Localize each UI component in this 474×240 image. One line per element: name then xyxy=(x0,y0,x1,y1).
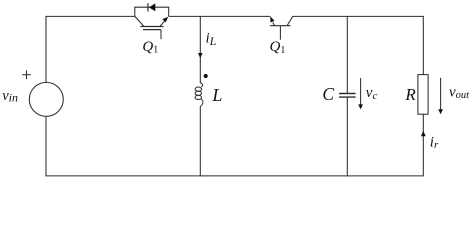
svg-text:L: L xyxy=(211,85,222,105)
diode D1 triangle xyxy=(149,3,155,11)
transistor Q1 right base lead xyxy=(279,26,281,40)
transistor Q1 left bar xyxy=(140,26,163,28)
wire inductor branch upper xyxy=(199,16,201,82)
wire top middle segment xyxy=(169,15,270,17)
wire capacitor branch lower xyxy=(346,97,348,176)
svg-text:R: R xyxy=(404,85,416,104)
wire right vertical lower xyxy=(422,114,424,176)
voltage source v_in circle xyxy=(29,82,63,116)
transistor Q1 left (IGBT) collector slant xyxy=(135,16,144,26)
diode D1 cathode bar xyxy=(147,3,149,11)
wire left vertical lower xyxy=(45,116,47,175)
current arrow iL xyxy=(198,53,203,58)
wire top right segment xyxy=(293,15,424,17)
capacitor C plates xyxy=(339,94,356,98)
voltage arrow vc xyxy=(360,78,362,105)
resistor R box xyxy=(418,75,428,115)
svg-text:vc: vc xyxy=(366,85,378,102)
transistor Q1 right collector slant xyxy=(287,16,293,25)
svg-text:Q1: Q1 xyxy=(270,39,286,56)
antiparallel diode loop xyxy=(135,7,169,16)
transistor Q1 left gate lead xyxy=(160,30,162,40)
voltage arrow vout xyxy=(440,78,442,110)
svg-text:ir: ir xyxy=(430,134,439,151)
transistor Q1 right (BJT) emitter arrow xyxy=(273,22,275,25)
inductor L coil xyxy=(195,83,203,107)
polarity dot xyxy=(204,74,208,78)
wire left vertical upper xyxy=(45,16,47,82)
svg-text:vin: vin xyxy=(2,88,18,104)
wire inductor branch lower xyxy=(199,107,201,176)
current arrow ir xyxy=(421,131,426,136)
transistor Q1 left gate bar xyxy=(143,29,161,31)
transistor Q1 right bar xyxy=(270,25,291,27)
svg-text:C: C xyxy=(322,84,334,104)
svg-text:iL: iL xyxy=(206,31,217,48)
svg-text:Q1: Q1 xyxy=(142,39,158,56)
plus sign xyxy=(22,70,31,79)
wire top-left segment xyxy=(46,15,135,17)
wire capacitor branch upper xyxy=(346,16,348,93)
wire bottom xyxy=(46,175,423,177)
transistor Q1 left emitter slant with arrow xyxy=(160,21,165,26)
svg-text:vout: vout xyxy=(449,85,470,102)
wire right vertical upper xyxy=(422,16,424,74)
